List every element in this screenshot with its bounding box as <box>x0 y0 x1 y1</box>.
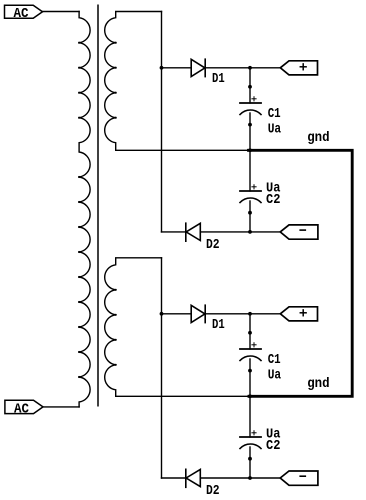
svg-text:Ua: Ua <box>268 368 282 384</box>
wire vertical bus top circuit <box>161 12 163 232</box>
junction dots bottom circuit <box>160 312 252 480</box>
wire C1 bottom to gnd rail (bottom) <box>249 359 251 396</box>
wire gnd rail down to C2 (bottom) <box>249 396 251 437</box>
wire C2 bottom to - node <box>249 201 251 232</box>
primary cusp dots <box>78 42 80 379</box>
wire AC bottom to primary <box>43 406 79 408</box>
transformer secondary 2 <box>105 258 249 397</box>
svg-text:D2: D2 <box>206 483 220 499</box>
wire to D2 cathode (bottom) <box>162 477 186 479</box>
svg-text:D1: D1 <box>212 71 225 87</box>
svg-text:Ua: Ua <box>268 122 282 138</box>
wire + node down to C1 <box>249 68 251 103</box>
wire D1 cathode to + flag <box>205 67 280 69</box>
wire vertical bus bottom circuit <box>161 258 163 478</box>
svg-text:gnd: gnd <box>307 130 329 146</box>
transformer secondary 1 <box>105 12 249 151</box>
svg-text:AC: AC <box>14 6 30 22</box>
AC flag bottom <box>5 400 43 417</box>
svg-text:C1: C1 <box>268 352 281 368</box>
capacitor C2 <box>240 185 261 203</box>
wire D2 anode to - flag <box>200 231 280 233</box>
diode D1 (bottom) <box>191 305 205 322</box>
+ output flag <box>280 61 317 75</box>
gnd bus thick <box>249 150 353 396</box>
svg-text:C2: C2 <box>266 192 280 208</box>
wire gnd rail down to C2 <box>249 150 251 191</box>
wire AC top to primary <box>43 11 80 13</box>
- output flag (bottom) <box>280 471 318 485</box>
capacitor C2 (bottom) <box>240 431 261 449</box>
wire to D2 cathode <box>162 231 186 233</box>
transformer primary winding <box>79 12 90 407</box>
svg-text:C1: C1 <box>268 106 281 122</box>
wire C1 bottom to gnd rail <box>249 113 251 150</box>
svg-text:D1: D1 <box>212 317 225 333</box>
- output flag <box>280 225 318 239</box>
AC flag top <box>5 5 43 22</box>
diode D1 <box>191 59 205 76</box>
svg-text:gnd: gnd <box>307 376 329 392</box>
secondary 1 cusp dots <box>115 42 117 119</box>
wire D1 cathode to + flag (bottom) <box>205 313 280 315</box>
svg-text:D2: D2 <box>206 237 220 253</box>
svg-text:C2: C2 <box>266 438 280 454</box>
junction dots top circuit <box>160 66 252 234</box>
transformer core <box>97 5 99 406</box>
capacitor C1 <box>240 97 261 115</box>
+ output flag (bottom) <box>280 307 317 321</box>
svg-text:AC: AC <box>14 402 30 418</box>
wire C2 bottom to - node (bottom) <box>249 447 251 478</box>
wire + node down to C1 (bottom) <box>249 314 251 349</box>
secondary 2 cusp dots <box>115 289 117 366</box>
diode D2 <box>186 223 201 241</box>
diode D2 (bottom) <box>186 469 201 487</box>
wire to D1 anode <box>162 67 192 69</box>
wire D2 anode to - flag (bottom) <box>200 477 280 479</box>
wire to D1 anode (bottom) <box>162 313 192 315</box>
capacitor C1 (bottom) <box>240 343 261 361</box>
